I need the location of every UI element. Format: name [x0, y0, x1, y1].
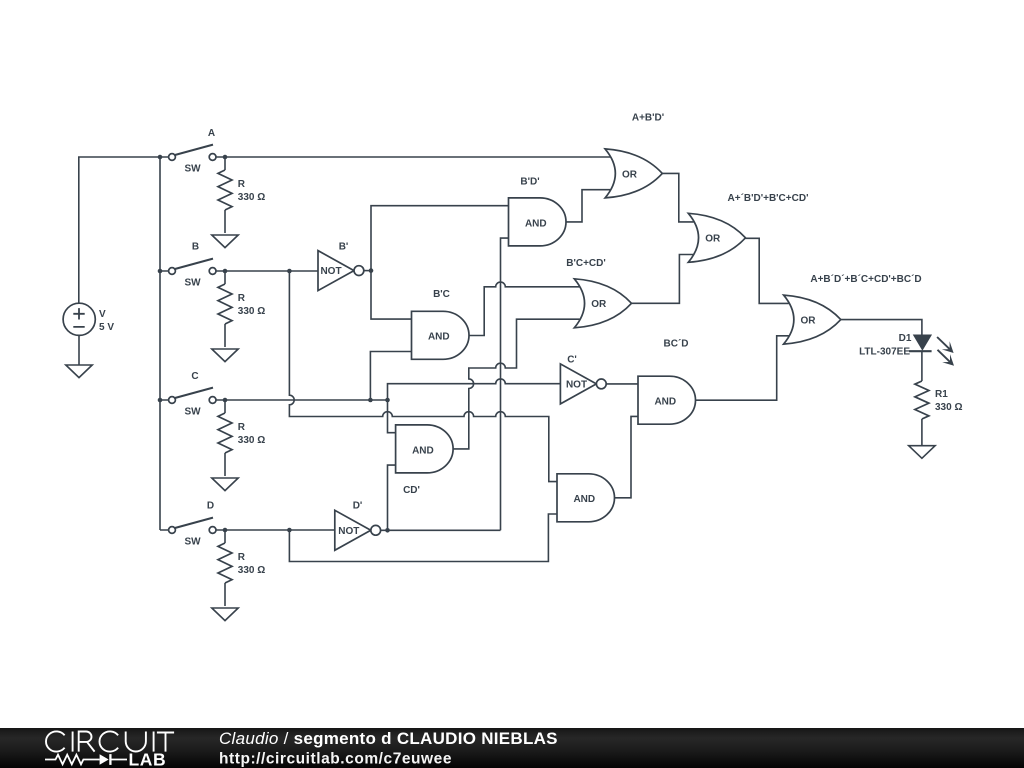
- svg-text:OR: OR: [801, 316, 817, 327]
- resistor R 330ohm row A with ground: [212, 157, 265, 248]
- AND gate B'D' (U1): [509, 177, 567, 246]
- ground below V source: [66, 365, 92, 378]
- wire NOT1 bubble to junction: [364, 270, 371, 272]
- svg-text:AND: AND: [428, 332, 450, 343]
- svg-text:B': B': [339, 241, 349, 252]
- wire NOT3 output to AND4 top input: [606, 383, 639, 385]
- svg-text:B'C+CD': B'C+CD': [566, 258, 605, 269]
- wire node D row: [160, 529, 335, 531]
- OR gate stage2 (U7): [688, 193, 808, 262]
- voltage source V 5V: [63, 303, 114, 335]
- svg-text:330 Ω: 330 Ω: [935, 402, 962, 413]
- wire AND1 output to OR1 bottom input: [566, 190, 610, 222]
- LED D1 LTL-307EE: [859, 333, 954, 366]
- wire D' to AND3 bottom input: [388, 465, 397, 530]
- AND gate B.D (U5): [557, 474, 615, 522]
- svg-text:OR: OR: [591, 299, 607, 310]
- svg-text:AND: AND: [412, 445, 434, 456]
- svg-text:BC´D: BC´D: [664, 339, 689, 350]
- svg-text:R: R: [238, 293, 246, 304]
- AND gate B'C (U2): [412, 289, 470, 359]
- resistor R1 330ohm: [915, 381, 963, 419]
- svg-text:C': C': [567, 355, 577, 366]
- svg-text:B: B: [192, 242, 199, 253]
- svg-text:R: R: [238, 552, 246, 563]
- wire AND4 output to OR4 bottom input: [695, 336, 788, 400]
- svg-text:SW: SW: [184, 406, 201, 417]
- wire C to AND2 bottom input: [370, 352, 412, 401]
- svg-text:330 Ω: 330 Ω: [238, 565, 265, 576]
- svg-text:NOT: NOT: [320, 266, 341, 277]
- svg-text:D1: D1: [899, 333, 912, 344]
- switch SW C: [169, 371, 216, 417]
- wire B' to AND2 top input: [371, 271, 412, 320]
- svg-text:B'D': B'D': [520, 177, 539, 188]
- wire B' to AND1 top input: [371, 206, 509, 271]
- footer CircuitLab bar: [0, 728, 1024, 768]
- svg-text:5 V: 5 V: [99, 322, 114, 333]
- svg-text:SW: SW: [184, 536, 201, 547]
- svg-text:330 Ω: 330 Ω: [238, 306, 265, 317]
- wire OR2 output to OR4 top input: [745, 238, 789, 303]
- svg-text:OR: OR: [705, 234, 721, 245]
- wire node A row: [160, 156, 610, 158]
- svg-text:AND: AND: [525, 218, 547, 229]
- NOT gate C' (U_notC): [560, 355, 606, 404]
- svg-text:R1: R1: [935, 389, 948, 400]
- svg-text:SW: SW: [184, 163, 201, 174]
- svg-text:R: R: [238, 179, 246, 190]
- wire V source to bus top: [79, 157, 160, 303]
- OR gate A+B'D' (U6): [605, 113, 664, 198]
- wire OR4 output to LED D1: [841, 320, 922, 336]
- wire LED D1 to R1: [921, 351, 923, 381]
- svg-text:A+B´D´+B´C+CD'+BC´D: A+B´D´+B´C+CD'+BC´D: [810, 274, 921, 285]
- svg-text:V: V: [99, 309, 106, 320]
- wire D' to AND1 bottom input: [501, 238, 510, 530]
- svg-text:AND: AND: [573, 494, 595, 505]
- wire V source to ground: [78, 335, 80, 365]
- wire OR1 output to OR2 top input: [662, 173, 693, 222]
- svg-text:B'C: B'C: [433, 289, 450, 300]
- svg-text:C: C: [191, 371, 198, 382]
- wire node C row: [160, 399, 388, 401]
- resistor R 330ohm row B with ground: [212, 271, 265, 362]
- svg-text:A+´B'D'+B'C+CD': A+´B'D'+B'C+CD': [728, 193, 809, 204]
- NOT gate B' (U_notB): [318, 241, 364, 290]
- switch SW A: [169, 128, 216, 174]
- wire C to NOT3 input: [388, 379, 561, 400]
- wire B branch to AND5 top input: [289, 271, 558, 482]
- wire D' output run: [381, 529, 501, 531]
- wire supply bus vertical: [159, 157, 161, 530]
- svg-text:R: R: [238, 422, 246, 433]
- wire D branch to AND5 bottom input: [289, 514, 558, 562]
- svg-text:330 Ω: 330 Ω: [238, 435, 265, 446]
- ground below R1: [909, 446, 935, 459]
- svg-text:NOT: NOT: [338, 526, 359, 537]
- svg-text:LTL-307EE: LTL-307EE: [859, 347, 910, 358]
- resistor R 330ohm row C with ground: [212, 400, 265, 491]
- AND gate BC'D (U4): [638, 339, 696, 425]
- svg-text:Claudio / segmento d CLAUDIO N: Claudio / segmento d CLAUDIO NIEBLAS: [219, 729, 558, 748]
- svg-text:SW: SW: [184, 277, 201, 288]
- junction dots: [158, 155, 390, 533]
- AND gate CD' (U3): [396, 425, 454, 496]
- svg-text:AND: AND: [654, 397, 676, 408]
- switch SW D: [169, 501, 216, 548]
- svg-text:http://circuitlab.com/c7euwee: http://circuitlab.com/c7euwee: [219, 751, 452, 768]
- wire AND2 output to OR3 top input: [469, 282, 580, 335]
- OR gate B'C+CD' (U8): [566, 258, 631, 328]
- wire AND5 output to AND4 bottom input: [614, 416, 638, 497]
- svg-text:D: D: [207, 501, 214, 512]
- svg-text:LAB: LAB: [129, 750, 167, 768]
- OR gate final (U9): [784, 274, 922, 344]
- svg-text:NOT: NOT: [566, 380, 587, 391]
- wire R1 to ground: [921, 419, 923, 446]
- svg-text:A: A: [208, 128, 215, 139]
- svg-text:D': D': [353, 501, 363, 512]
- wire node B row: [160, 270, 319, 272]
- wire C to AND3 top input: [388, 400, 397, 433]
- wire OR3 output to OR2 bottom input: [631, 255, 693, 304]
- switch SW B: [169, 242, 216, 289]
- svg-text:CD': CD': [403, 485, 420, 496]
- resistor R 330ohm row D with ground: [212, 530, 265, 621]
- svg-text:A+B'D': A+B'D': [632, 113, 664, 124]
- svg-text:OR: OR: [622, 169, 638, 180]
- wire AND3 output to OR3 bottom input: [453, 319, 579, 449]
- NOT gate D' (U_notD): [335, 501, 381, 551]
- svg-text:330 Ω: 330 Ω: [238, 192, 265, 203]
